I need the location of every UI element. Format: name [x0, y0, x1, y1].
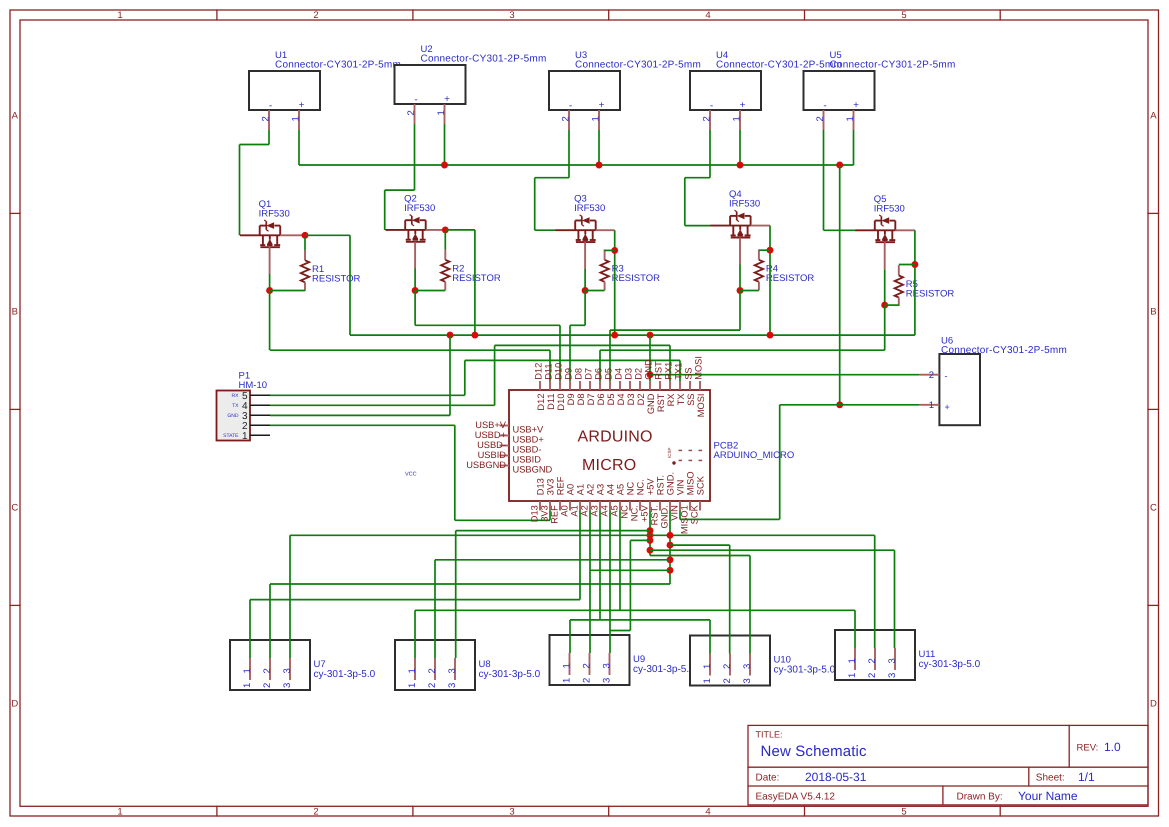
svg-text:D10: D10 [554, 363, 564, 380]
wire U8 pin2 to GND [435, 559, 670, 561]
svg-text:+: + [444, 94, 450, 105]
wire Q1 source to D11 [270, 349, 550, 351]
svg-text:USBID: USBID [513, 454, 542, 464]
resistor R2 RESISTOR [441, 250, 449, 291]
svg-text:VCC: VCC [405, 472, 417, 478]
svg-text:USB+V: USB+V [513, 424, 545, 434]
wire R4 top link [759, 249, 770, 251]
wire +5V to NC riser [630, 539, 650, 541]
svg-text:A: A [1150, 111, 1157, 122]
svg-text:1: 1 [562, 663, 573, 668]
wire to Q2 gate [384, 190, 386, 230]
wire U6 pin1 line [780, 404, 920, 406]
svg-text:+: + [945, 402, 950, 412]
svg-text:1: 1 [702, 678, 713, 683]
svg-text:Connector-CY301-2P-5mm: Connector-CY301-2P-5mm [941, 345, 1067, 356]
svg-text:VIN: VIN [670, 505, 680, 521]
wire P1 TX to RX1 [495, 344, 670, 346]
U4 pin 1 (+) [732, 100, 746, 130]
svg-text:4: 4 [705, 10, 710, 21]
svg-text:REF: REF [556, 476, 566, 495]
label Q5 IRF530 [874, 194, 905, 215]
svg-text:2: 2 [582, 663, 593, 668]
svg-text:2: 2 [815, 116, 826, 121]
svg-text:REV:: REV: [1077, 743, 1099, 754]
svg-text:TX: TX [232, 403, 239, 409]
svg-text:GND.: GND. [666, 472, 676, 495]
U6 pin 1 (+) [920, 400, 950, 412]
PCB2 top pin numbers [534, 356, 704, 380]
title block Sheet [1036, 770, 1095, 784]
svg-text:SCK: SCK [690, 504, 700, 524]
PCB2 bottom pin stubs [540, 501, 700, 511]
wire Q1 source drop [269, 291, 271, 351]
label R4 RESISTOR [766, 263, 815, 284]
svg-text:D: D [11, 699, 18, 710]
svg-text:NC: NC [626, 481, 636, 495]
svg-text:D9: D9 [564, 368, 574, 380]
svg-text:+: + [599, 100, 605, 111]
resistor R3 RESISTOR [600, 250, 608, 291]
connector U3 Connector-CY301-2P-5mm [549, 50, 701, 110]
svg-text:1: 1 [242, 668, 253, 673]
svg-text:-: - [269, 101, 272, 112]
U10 pin 2 [722, 654, 733, 684]
svg-text:3: 3 [509, 806, 514, 817]
wire U10 pin1 drop [709, 620, 711, 654]
wire U8 pin3 to +5V [456, 530, 650, 532]
junction +5V 1 [647, 527, 654, 534]
wire U1 pin2 jog [240, 144, 270, 146]
svg-text:D3: D3 [626, 394, 636, 406]
wire A3 drop [599, 511, 601, 620]
svg-text:IRF530: IRF530 [729, 199, 760, 210]
svg-text:Drawn By:: Drawn By: [957, 792, 1003, 803]
wire U1 pin1 drop [298, 130, 300, 165]
svg-text:USBD+: USBD+ [513, 434, 544, 444]
svg-text:RESISTOR: RESISTOR [312, 273, 361, 284]
svg-text:EasyEDA V5.4.12: EasyEDA V5.4.12 [756, 792, 836, 803]
svg-text:SS: SS [684, 367, 694, 379]
connector U6 Connector-CY301-2P-5mm [939, 335, 1067, 425]
svg-text:2: 2 [262, 683, 273, 688]
svg-text:-: - [569, 101, 572, 112]
wire GND to U7 pin2 [270, 583, 670, 585]
transistor Q5 IRF530 [855, 215, 915, 269]
junction Q3 drain / R3 [611, 247, 618, 254]
label Q3 IRF530 [574, 194, 605, 215]
wire Q5 drain drop [914, 230, 916, 335]
svg-text:REF: REF [550, 505, 560, 524]
U11 pin 3 [887, 648, 898, 678]
wire GND to U10 pin2 [670, 544, 730, 546]
wire Q5 source to D6 [600, 349, 885, 351]
svg-text:D13: D13 [536, 478, 546, 495]
wire GND down [669, 511, 671, 585]
svg-text:RST: RST [654, 361, 664, 380]
svg-text:A: A [12, 111, 19, 122]
svg-text:3: 3 [509, 10, 514, 21]
svg-text:SS: SS [686, 394, 696, 406]
svg-text:D12: D12 [534, 363, 544, 380]
wire +5V to U10 pin3 [650, 555, 750, 557]
svg-text:USBD-: USBD- [477, 440, 506, 450]
svg-text:A4: A4 [606, 484, 616, 495]
wire R2 bottom link [415, 290, 445, 292]
PCB2 top pin stubs [540, 381, 700, 390]
wire D6 drop [599, 350, 601, 381]
svg-text:D3: D3 [624, 368, 634, 380]
svg-text:2: 2 [427, 683, 438, 688]
wire D11 drop [549, 350, 551, 381]
wire R1 bottom link [270, 290, 305, 292]
svg-text:4: 4 [705, 806, 710, 817]
svg-text:2: 2 [313, 10, 318, 21]
svg-text:USBGND: USBGND [513, 464, 553, 474]
svg-text:RX: RX [232, 393, 240, 399]
junction [647, 332, 654, 339]
svg-text:1: 1 [562, 678, 573, 683]
svg-text:-: - [823, 101, 826, 112]
wire drain bus [350, 334, 915, 336]
U9 pin 1 [562, 653, 573, 683]
resistor R1 RESISTOR [301, 250, 309, 291]
title block REV [1077, 740, 1122, 754]
wire P1 GND line [270, 414, 450, 416]
wire to Q1 gate [239, 145, 241, 236]
svg-text:MOSI: MOSI [696, 394, 706, 418]
label R3 RESISTOR [612, 263, 661, 284]
svg-text:RESISTOR: RESISTOR [452, 273, 501, 284]
svg-text:GND: GND [227, 413, 239, 419]
svg-text:ARDUINO_MICRO: ARDUINO_MICRO [714, 450, 795, 461]
svg-text:1: 1 [847, 658, 858, 663]
U11 pin 1 [847, 648, 858, 678]
junction [611, 332, 618, 339]
U7 pin 2 [262, 658, 273, 688]
wire GND to U9 pin2 [590, 569, 670, 571]
wire to Q3 gate [535, 229, 556, 231]
svg-text:D6: D6 [594, 368, 604, 380]
svg-text:USBD+: USBD+ [475, 430, 506, 440]
junction [441, 162, 448, 169]
junction GND 1 [667, 532, 674, 539]
svg-text:GND.: GND. [660, 505, 670, 528]
junction +5V 2 [647, 532, 654, 539]
U8 pin 2 [427, 658, 438, 688]
svg-text:A3: A3 [596, 484, 606, 495]
title block EasyEDA version [756, 792, 836, 803]
wire Q2 source down [414, 269, 416, 291]
svg-text:D10: D10 [556, 394, 566, 411]
svg-text:SCK: SCK [696, 475, 706, 495]
svg-text:5: 5 [901, 806, 906, 817]
label Q1 IRF530 [259, 199, 290, 220]
connector U7 cy-301-3p-5.0 [230, 640, 376, 690]
svg-text:NC.: NC. [630, 505, 640, 521]
title block Date [756, 770, 867, 784]
svg-text:GND: GND [646, 393, 656, 414]
svg-text:3: 3 [447, 683, 458, 688]
svg-text:+: + [853, 100, 859, 111]
wire NC riser drop [629, 540, 631, 630]
svg-text:Connector-CY301-2P-5mm: Connector-CY301-2P-5mm [830, 60, 956, 71]
junction Q5 source / R5 bottom [881, 302, 888, 309]
svg-text:USB+V: USB+V [475, 420, 507, 430]
wire U5 pin2 down [823, 130, 825, 230]
label R5 RESISTOR [906, 279, 955, 300]
svg-text:1: 1 [847, 673, 858, 678]
U3 pin 2 (-) [561, 101, 573, 131]
svg-text:2: 2 [561, 116, 572, 121]
svg-text:USBID: USBID [478, 450, 507, 460]
svg-text:NC: NC [620, 505, 630, 519]
svg-text:C: C [1150, 503, 1157, 514]
svg-text:RESISTOR: RESISTOR [612, 273, 661, 284]
U1 pin 1 (+) [291, 100, 305, 130]
svg-text:A0: A0 [560, 505, 570, 516]
svg-text:1: 1 [117, 806, 122, 817]
wire U2 pin1 drop [444, 124, 446, 165]
PCB2 left pin numbers [466, 420, 507, 470]
wire U6 pin1 to VIN drop [779, 405, 781, 520]
P1 pin 5 RX [232, 391, 270, 402]
junction [596, 162, 603, 169]
svg-text:2: 2 [313, 806, 318, 817]
svg-text:U9: U9 [633, 654, 645, 665]
wire Q4 source down [739, 265, 741, 291]
wire VIN to U6 pin1 riser [680, 518, 780, 520]
PCB2 bottom pin numbers [530, 504, 700, 534]
svg-text:3: 3 [742, 664, 753, 669]
wire Q3 source down [584, 269, 586, 291]
wire U8 pin2 drop [434, 560, 436, 658]
svg-text:D4: D4 [614, 368, 624, 380]
U8 pin 1 [407, 658, 418, 688]
junction Q2 drain / R2 [442, 226, 449, 233]
junction GND / U6 pin2 [647, 371, 654, 378]
svg-text:2: 2 [867, 673, 878, 678]
svg-text:D5: D5 [604, 368, 614, 380]
wire P1 pin2 to 3V3 [455, 519, 550, 521]
svg-text:1: 1 [242, 431, 248, 442]
svg-text:3: 3 [887, 658, 898, 663]
module PCB2 ARDUINO_MICRO [509, 390, 710, 501]
wire P1 pin2 line [270, 424, 455, 426]
svg-text:Sheet:: Sheet: [1036, 773, 1065, 784]
P1 pin 2 [242, 421, 270, 432]
svg-text:2: 2 [722, 678, 733, 683]
svg-text:TX1: TX1 [674, 363, 684, 380]
wire U11 pin2 drop [874, 535, 876, 648]
svg-text:Connector-CY301-2P-5mm: Connector-CY301-2P-5mm [421, 54, 547, 65]
wire R1 top [304, 237, 306, 250]
wire U8 pin3 drop [455, 531, 457, 658]
wire U10 pin2 drop [729, 545, 731, 653]
svg-text:3: 3 [602, 663, 613, 668]
connector U5 Connector-CY301-2P-5mm [804, 50, 956, 110]
junction +5V 4 [647, 547, 654, 554]
svg-text:cy-301-3p-5.0: cy-301-3p-5.0 [919, 659, 981, 670]
U2 pin 1 (+) [436, 94, 450, 124]
svg-text:NC.: NC. [636, 479, 646, 495]
U10 pin 3 [742, 654, 753, 684]
svg-text:U10: U10 [774, 654, 791, 665]
svg-text:cy-301-3p-5.0: cy-301-3p-5.0 [774, 665, 836, 676]
svg-text:D2: D2 [636, 394, 646, 406]
label R2 RESISTOR [452, 263, 501, 284]
svg-text:-: - [710, 101, 713, 112]
junction [737, 162, 744, 169]
svg-text:-: - [945, 371, 948, 381]
wire D5 drop [609, 330, 611, 381]
svg-text:ARDUINO: ARDUINO [578, 429, 653, 446]
U11 pin 2 [867, 648, 878, 678]
connector U10 cy-301-3p-5.0 [690, 636, 836, 686]
wire U2 pin2 jog [385, 189, 415, 191]
wire R3 top link [605, 249, 615, 251]
svg-text:1: 1 [242, 683, 253, 688]
svg-text:D2: D2 [634, 368, 644, 380]
svg-text:2: 2 [929, 370, 934, 381]
svg-text:RX1: RX1 [664, 362, 674, 380]
svg-text:IRF530: IRF530 [404, 203, 435, 214]
wire down to Q4 gate [684, 178, 686, 226]
svg-text:IRF530: IRF530 [874, 203, 905, 214]
svg-text:3: 3 [282, 683, 293, 688]
U5 pin 2 (-) [815, 101, 827, 131]
label R1 RESISTOR [312, 264, 361, 285]
transistor Q2 IRF530 [386, 215, 446, 269]
svg-text:RESISTOR: RESISTOR [766, 273, 815, 284]
svg-text:U8: U8 [479, 659, 491, 670]
svg-text:D12: D12 [536, 394, 546, 411]
svg-text:RST: RST [656, 393, 666, 412]
svg-text:A5: A5 [616, 484, 626, 495]
svg-text:B: B [1150, 307, 1156, 318]
svg-text:RST.: RST. [656, 475, 666, 495]
wire U7 pin1 drop [249, 600, 251, 658]
svg-text:A1: A1 [570, 505, 580, 516]
wire TX1 drop [679, 360, 681, 381]
svg-text:Connector-CY301-2P-5mm: Connector-CY301-2P-5mm [275, 60, 401, 71]
connector P1 HM-10 [217, 371, 268, 441]
connector U2 Connector-CY301-2P-5mm [395, 44, 547, 104]
junction [471, 332, 478, 339]
title block Drawn By [957, 789, 1078, 803]
wire P1 TX line [270, 404, 495, 406]
wire U3 pin1 drop [598, 130, 600, 165]
wire Q2 drain drop [474, 230, 476, 335]
svg-text:D11: D11 [544, 363, 554, 379]
wire Q2 drain to right [445, 229, 475, 231]
PCB2 ICSP header marks [667, 447, 702, 464]
svg-text:U11: U11 [919, 649, 936, 660]
wire down to Q3 gate [534, 178, 536, 231]
svg-text:D: D [1150, 699, 1157, 710]
svg-text:MICRO: MICRO [582, 457, 636, 474]
resistor R5 RESISTOR [895, 265, 903, 306]
wire A4 to U9 pin3 [609, 511, 611, 654]
wire U7 pin2 drop [269, 584, 271, 658]
junction GND 4 [667, 567, 674, 574]
junction Q4 drain / R4 [767, 247, 774, 254]
U7 pin 1 [242, 658, 253, 688]
wire +5V to U11 pin3 [650, 549, 895, 551]
junction Q2 source / R2 bottom [412, 287, 419, 294]
wire U4 pin2 jog [685, 177, 710, 179]
svg-text:1: 1 [732, 116, 743, 121]
wire Q3 source to D9 [570, 324, 585, 326]
wire P1 RX line [270, 394, 465, 396]
svg-text:3: 3 [742, 678, 753, 683]
title block TITLE [756, 730, 868, 760]
svg-text:A2: A2 [586, 484, 596, 495]
U1 pin 2 (-) [261, 101, 273, 131]
P1 pin 3 GND [227, 411, 270, 422]
svg-text:D5: D5 [606, 394, 616, 406]
wire U10 pin3 drop [749, 556, 751, 654]
title block [748, 725, 1148, 805]
svg-text:1/1: 1/1 [1078, 770, 1095, 784]
svg-text:USBD-: USBD- [513, 444, 542, 454]
svg-text:Date:: Date: [756, 773, 780, 784]
wire U11 pin3 drop [894, 550, 896, 648]
wire 3V3 riser [549, 511, 551, 521]
svg-text:3V3: 3V3 [540, 505, 550, 522]
wire to Q5 gate [824, 229, 856, 231]
U4 pin 2 (-) [702, 101, 714, 131]
svg-text:1: 1 [591, 116, 602, 121]
svg-text:5: 5 [901, 10, 906, 21]
svg-text:+: + [740, 100, 746, 111]
wire U2 pin2 down [414, 124, 416, 190]
wire U8 pin1 drop [414, 610, 416, 658]
svg-text:B: B [12, 307, 18, 318]
junction [767, 332, 774, 339]
svg-text:D11: D11 [546, 394, 556, 410]
svg-text:D6: D6 [596, 394, 606, 406]
junction Q4 source / R4 bottom [737, 287, 744, 294]
svg-text:2: 2 [582, 678, 593, 683]
wire U1 pin2 down [268, 130, 270, 145]
svg-text:RST.: RST. [650, 505, 660, 525]
svg-text:3: 3 [447, 668, 458, 673]
svg-text:MOSI: MOSI [694, 356, 704, 380]
wire U7 pin3 drop [289, 535, 291, 658]
U8 pin 3 [447, 658, 458, 688]
svg-text:D4: D4 [616, 394, 626, 406]
PCB2 top pin names [536, 393, 706, 417]
junction Q1 source / R1 bottom [266, 287, 273, 294]
svg-text:MISO: MISO [686, 471, 696, 495]
svg-text:D7: D7 [584, 368, 594, 380]
svg-text:3: 3 [887, 673, 898, 678]
P1 pin 1 STATE [223, 431, 270, 442]
svg-text:2018-05-31: 2018-05-31 [805, 770, 867, 784]
junction GND 2 [667, 542, 674, 549]
svg-text:2: 2 [427, 668, 438, 673]
svg-text:Your Name: Your Name [1018, 789, 1078, 803]
svg-text:D8: D8 [576, 394, 586, 406]
svg-text:cy-301-3p-5.0: cy-301-3p-5.0 [633, 664, 695, 675]
wire P1 RX riser [464, 360, 466, 395]
svg-text:GND: GND [644, 359, 654, 380]
svg-text:TITLE:: TITLE: [756, 730, 783, 740]
svg-text:RESISTOR: RESISTOR [906, 289, 955, 300]
wire to Q4 gate [685, 225, 711, 227]
svg-text:2: 2 [722, 664, 733, 669]
